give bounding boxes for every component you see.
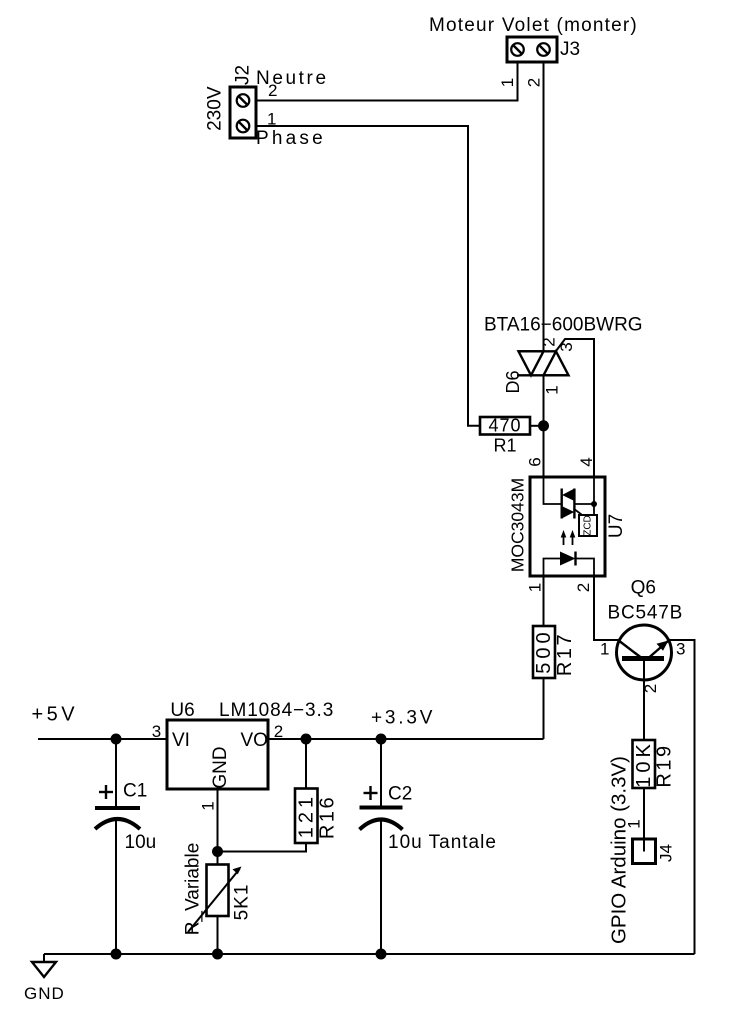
junction C1 bottom bbox=[111, 949, 122, 960]
junction R_Variable bottom bbox=[212, 949, 223, 960]
junction at R1 output bbox=[538, 420, 549, 431]
svg-text:Moteur Volet (monter): Moteur Volet (monter) bbox=[429, 15, 638, 36]
wire Q6 emitter to GND rail bbox=[670, 640, 695, 954]
U7 pin4 inner wiring bbox=[593, 477, 595, 515]
svg-text:J2: J2 bbox=[233, 65, 254, 85]
junction U6 GND / R16 bbox=[212, 846, 223, 857]
svg-text:3: 3 bbox=[152, 722, 161, 741]
svg-text:1: 1 bbox=[526, 583, 545, 592]
svg-text:J3: J3 bbox=[560, 39, 580, 60]
wire U6 GND pin down bbox=[217, 789, 219, 865]
junction C2 top bbox=[376, 734, 387, 745]
wire +5V rail bbox=[38, 738, 167, 740]
svg-text:2: 2 bbox=[268, 81, 277, 100]
svg-text:LM1084−3.3: LM1084−3.3 bbox=[219, 700, 334, 721]
svg-text:J4: J4 bbox=[657, 844, 676, 862]
capacitor C1 bbox=[95, 739, 140, 954]
svg-text:BTA16−600BWRG: BTA16−600BWRG bbox=[484, 315, 643, 336]
svg-text:U7: U7 bbox=[606, 514, 627, 538]
svg-text:R16: R16 bbox=[317, 795, 339, 839]
svg-text:230V: 230V bbox=[205, 86, 226, 131]
svg-text:1: 1 bbox=[543, 385, 562, 394]
svg-text:2: 2 bbox=[274, 722, 283, 741]
svg-text:2: 2 bbox=[525, 78, 544, 87]
U7 gate to ZCD bbox=[574, 509, 582, 515]
U7 ZCD box bbox=[579, 515, 597, 536]
U7 LED bbox=[544, 559, 561, 577]
svg-text:470: 470 bbox=[488, 416, 521, 436]
resistor R1 bbox=[480, 417, 530, 435]
wire J3.2 to triac A2 bbox=[543, 62, 545, 351]
resistor R17 bbox=[533, 626, 555, 678]
triac D6 bbox=[517, 351, 569, 375]
svg-text:5K1: 5K1 bbox=[232, 884, 253, 921]
wire R_Variable to GND rail bbox=[217, 916, 219, 954]
svg-text:+3.3V: +3.3V bbox=[371, 708, 435, 729]
regulator U6 bbox=[167, 720, 268, 789]
wire Q6 base to R19 bbox=[643, 659, 645, 741]
resistor R16 bbox=[295, 789, 318, 844]
junction R16 top bbox=[301, 734, 312, 745]
svg-text:ZCD: ZCD bbox=[583, 515, 594, 536]
junction C2 bottom bbox=[376, 949, 387, 960]
svg-text:Phase: Phase bbox=[256, 128, 326, 149]
svg-text:+5V: +5V bbox=[32, 704, 79, 726]
svg-text:4: 4 bbox=[577, 457, 596, 466]
svg-text:R1: R1 bbox=[493, 436, 516, 456]
wire triac gate to opto pin4 bbox=[556, 339, 594, 477]
connector J2 bbox=[230, 87, 256, 138]
svg-text:BC547B: BC547B bbox=[608, 603, 684, 624]
resistor R19 bbox=[633, 740, 656, 788]
wire R19 to J4 bbox=[643, 788, 645, 839]
wire Phase J2.1 to R1 bbox=[256, 126, 480, 426]
svg-text:R_Variable: R_Variable bbox=[183, 843, 204, 936]
svg-text:121: 121 bbox=[296, 793, 318, 838]
junction C1 top bbox=[111, 734, 122, 745]
wire opto pin1 to R17 bbox=[543, 576, 545, 626]
wire R16 top bbox=[305, 739, 307, 789]
variable resistor R_Variable bbox=[188, 865, 242, 933]
capacitor C2 bbox=[360, 739, 403, 954]
svg-text:3: 3 bbox=[676, 640, 685, 659]
ground symbol bbox=[32, 954, 56, 977]
U7 pin6 inner wiring bbox=[544, 477, 562, 504]
U7 internal triac lower triangle bbox=[562, 506, 575, 519]
U7 internal triac upper triangle bbox=[562, 489, 575, 502]
wire triac A1 to opto pin6 bbox=[543, 375, 545, 477]
U7 light arrows bbox=[563, 534, 565, 545]
wire R16 bottom to GND pin bbox=[218, 843, 307, 852]
svg-text:10u Tantale: 10u Tantale bbox=[388, 832, 497, 853]
svg-text:10u: 10u bbox=[125, 832, 157, 853]
svg-text:1: 1 bbox=[498, 78, 517, 87]
svg-text:2: 2 bbox=[574, 583, 593, 592]
svg-text:GPIO Arduino (3.3V): GPIO Arduino (3.3V) bbox=[608, 756, 631, 944]
svg-text:R17: R17 bbox=[554, 632, 576, 676]
wire +3.3V rail bbox=[268, 738, 544, 740]
wire opto pin2 to Q6 collector bbox=[594, 576, 618, 640]
svg-text:R19: R19 bbox=[654, 743, 676, 787]
svg-text:1: 1 bbox=[199, 801, 218, 810]
svg-text:GND: GND bbox=[210, 746, 231, 788]
wire GND rail bbox=[44, 953, 695, 955]
wire Neutre J2.2 to J3.1 bbox=[256, 62, 518, 101]
U7 internal triac bars bbox=[561, 489, 563, 519]
wire R17 to +3.3V rail bbox=[543, 678, 545, 739]
transistor Q6 bbox=[617, 625, 672, 680]
svg-text:6: 6 bbox=[526, 457, 545, 466]
wire R1 to junction bbox=[530, 425, 544, 427]
svg-text:VO: VO bbox=[241, 730, 268, 751]
connector J4 bbox=[633, 839, 656, 864]
svg-text:500: 500 bbox=[533, 628, 555, 673]
connector J3 bbox=[507, 37, 557, 62]
svg-text:U6: U6 bbox=[170, 700, 194, 721]
svg-text:1: 1 bbox=[600, 640, 609, 659]
svg-text:10K: 10K bbox=[633, 740, 655, 788]
svg-text:Neutre: Neutre bbox=[256, 68, 329, 89]
svg-text:C2: C2 bbox=[388, 784, 412, 805]
svg-text:Q6: Q6 bbox=[631, 578, 656, 599]
svg-text:MOC3043M: MOC3043M bbox=[508, 478, 528, 572]
svg-text:2: 2 bbox=[540, 337, 559, 346]
svg-text:C1: C1 bbox=[123, 781, 147, 802]
svg-text:VI: VI bbox=[172, 730, 190, 751]
optocoupler U7 bbox=[530, 477, 605, 576]
svg-text:GND: GND bbox=[24, 984, 65, 1003]
svg-text:D6: D6 bbox=[503, 370, 523, 393]
